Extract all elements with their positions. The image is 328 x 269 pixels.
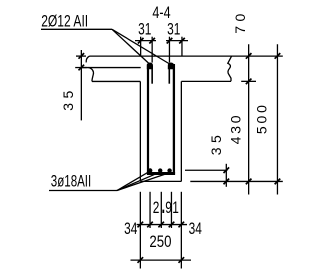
hook inner leg left xyxy=(151,66,153,84)
ext line hook1 top xyxy=(151,37,153,63)
ext line web right top xyxy=(181,37,183,56)
tick dim34 b xyxy=(147,222,153,228)
tick 500 b xyxy=(275,179,281,185)
svg-text:2: 2 xyxy=(153,199,160,218)
svg-text:3ø18AII: 3ø18AII xyxy=(51,172,91,191)
svg-text:1: 1 xyxy=(172,199,179,218)
dim 35 left line xyxy=(80,50,82,120)
ext line web left top xyxy=(140,37,142,56)
ext line bottom bar1 xyxy=(149,192,151,228)
leader to right top bar xyxy=(112,29,171,64)
bar level line left xyxy=(81,67,141,69)
tick 31L a xyxy=(138,38,144,44)
web left edge xyxy=(139,81,141,181)
svg-text:35: 35 xyxy=(208,131,224,156)
tick dim91 b xyxy=(169,222,175,228)
tick dim34R xyxy=(179,222,185,228)
tick dim34 a xyxy=(138,222,144,228)
tick 35L a xyxy=(79,53,85,59)
svg-text:500: 500 xyxy=(254,102,270,134)
dim line 31 right xyxy=(166,40,188,42)
tick 250 b xyxy=(179,257,185,263)
dim line 34/2x91/34 xyxy=(137,224,187,226)
bottom bar 1 xyxy=(148,168,152,172)
slab bottom left xyxy=(92,80,140,82)
bottom bar 3 xyxy=(167,168,171,172)
slab left break curl xyxy=(86,56,89,62)
top bar hook right xyxy=(168,63,174,70)
stirrup right leg xyxy=(173,64,175,174)
ext stub slab top left xyxy=(76,55,86,57)
tick 31R a xyxy=(167,38,173,44)
ext line bottom bar3 xyxy=(170,192,172,228)
tick 31L b xyxy=(149,38,155,44)
svg-text:70: 70 xyxy=(232,9,248,34)
tick 35R a xyxy=(224,167,230,173)
hook inner leg right xyxy=(168,66,170,84)
svg-text:250: 250 xyxy=(149,233,171,252)
tick 70/430 b xyxy=(246,79,252,85)
dim line 250 xyxy=(131,259,192,261)
ext line hook2 top xyxy=(168,37,170,63)
slab left break S-curve xyxy=(89,68,94,82)
svg-text:35: 35 xyxy=(60,86,76,111)
svg-text:31: 31 xyxy=(138,21,151,40)
dim line 430/70 xyxy=(248,44,250,194)
ext stub bar level left xyxy=(75,67,87,69)
leader to left top bar xyxy=(112,29,150,64)
tick 500 a xyxy=(275,53,281,59)
label 2Ø12 underline xyxy=(41,28,112,30)
tick 250 a xyxy=(138,257,144,263)
ext line bottom mid xyxy=(160,192,162,228)
leader to bottom bar3 xyxy=(117,173,168,190)
dim line 500 xyxy=(276,44,278,194)
svg-text:2Ø12 AII: 2Ø12 AII xyxy=(41,13,88,31)
stirrup left leg xyxy=(147,64,149,174)
tick 70 a xyxy=(246,53,252,59)
bottom bar 2 xyxy=(158,168,162,172)
svg-text:430: 430 xyxy=(227,113,243,145)
tick 35L b xyxy=(79,65,85,71)
ext line web bottom right xyxy=(190,180,282,182)
svg-text:34: 34 xyxy=(189,220,202,239)
tick 31R b xyxy=(179,38,185,44)
top bar hook left xyxy=(147,63,153,70)
ext line bottom web left xyxy=(139,192,141,269)
svg-text:31: 31 xyxy=(167,21,180,40)
dim 2x91 x mark xyxy=(162,210,164,213)
leader to bottom bar2 xyxy=(117,173,158,191)
svg-text:9: 9 xyxy=(165,199,172,218)
tick dim91 mid xyxy=(158,222,164,228)
leader to bottom bar1 xyxy=(117,172,148,190)
tick 35R b xyxy=(224,179,230,185)
dim 35 right line xyxy=(225,164,227,187)
web bottom xyxy=(140,180,181,182)
slab right break xyxy=(228,56,232,81)
dim line 31 left xyxy=(135,40,156,42)
bar level line right xyxy=(185,169,228,171)
slab top line xyxy=(90,55,283,57)
svg-text:34: 34 xyxy=(124,220,137,239)
ext 430 slab bottom xyxy=(241,80,256,82)
label 3Ø18 underline xyxy=(49,190,117,192)
tick 430 c xyxy=(246,179,252,185)
slab bottom right xyxy=(181,80,231,82)
ext line bottom web right xyxy=(180,192,182,269)
stirrup bottom xyxy=(147,172,175,175)
web right edge xyxy=(180,81,182,181)
